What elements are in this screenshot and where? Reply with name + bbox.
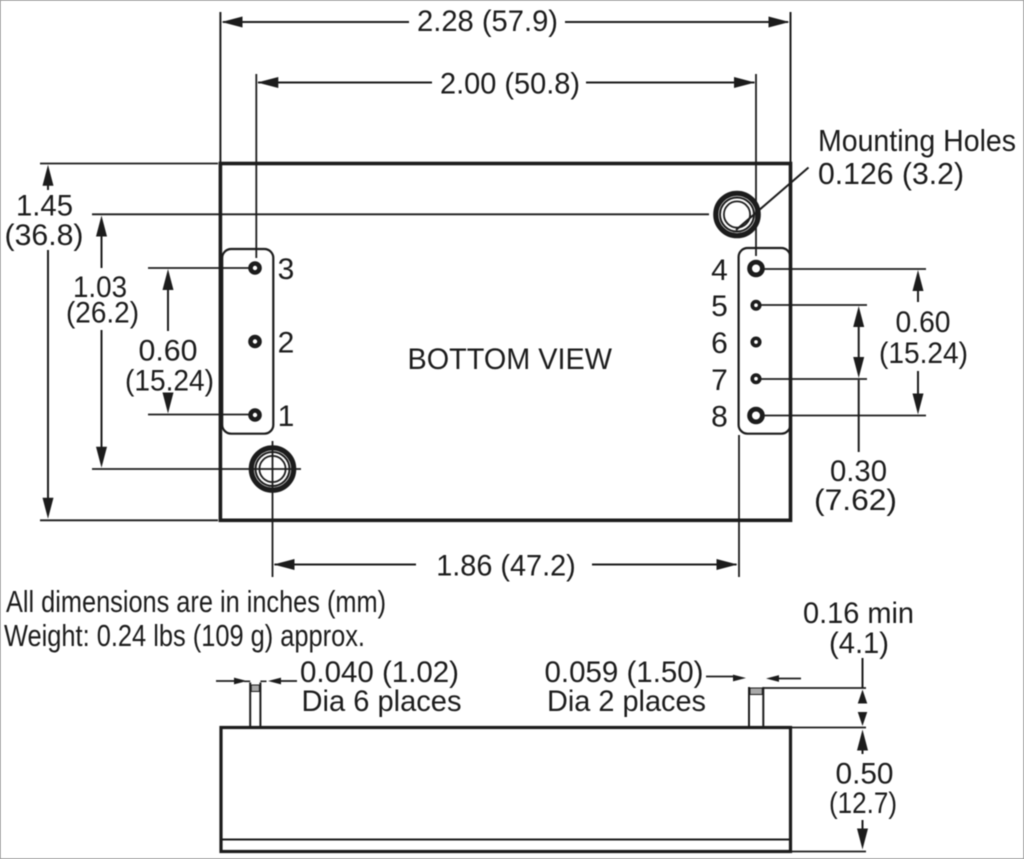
package body outline (bottom view): [220, 164, 790, 521]
0.040 dia text: [300, 656, 462, 718]
svg-text:8: 8: [711, 401, 728, 434]
svg-text:(12.7): (12.7): [829, 787, 897, 820]
svg-text:0.16 min: 0.16 min: [803, 597, 914, 630]
side view left pin (0.040 dia): [244, 681, 267, 727]
pin 1: [251, 411, 260, 420]
svg-text:All dimensions are in inches (: All dimensions are in inches (mm): [6, 584, 386, 619]
side view body outline: [221, 728, 791, 852]
mounting hole bottom-left: [251, 448, 293, 490]
dimension 1.86 (47.2) hole to pin strip: [274, 435, 740, 583]
svg-text:7: 7: [711, 364, 728, 397]
svg-text:0.50: 0.50: [836, 758, 894, 791]
svg-text:2: 2: [278, 327, 295, 360]
pin label 2: [278, 327, 295, 360]
BOTTOM VIEW label: [408, 343, 613, 376]
svg-text:0.126 (3.2): 0.126 (3.2): [818, 156, 964, 191]
dimension 1.03 (26.2) mounting hole span: [66, 214, 709, 469]
svg-text:5: 5: [711, 290, 728, 323]
pin label 7: [711, 364, 728, 397]
svg-text:3: 3: [278, 253, 295, 286]
svg-text:(26.2): (26.2): [66, 297, 139, 330]
svg-text:4: 4: [711, 254, 728, 287]
dimension 0.50 (12.7) body height: [829, 730, 897, 850]
svg-text:1: 1: [278, 400, 295, 433]
mounting holes callout text: [818, 123, 1016, 191]
side view top edge extension: [791, 727, 867, 729]
centerline through bottom-left mounting hole (1.86 extension): [272, 441, 274, 577]
0.040 dia arrows: [216, 678, 297, 685]
svg-text:6: 6: [711, 327, 728, 360]
svg-text:Weight: 0.24 lbs (109 g) appro: Weight: 0.24 lbs (109 g) approx.: [4, 618, 365, 653]
svg-text:Dia 2 places: Dia 2 places: [547, 685, 706, 718]
svg-text:2.00 (50.8): 2.00 (50.8): [440, 68, 580, 101]
dimension 0.30 (7.62) pin pitch: [761, 305, 897, 517]
svg-text:Dia 6 places: Dia 6 places: [302, 685, 462, 718]
pin label 4: [711, 254, 728, 287]
dimension 2.00 (50.8) pin span width: [256, 68, 756, 259]
note: weight: [4, 618, 365, 653]
dimension 2.28 (57.9) overall width: [220, 5, 790, 164]
dimension 1.45 (36.8) body height: [5, 164, 219, 521]
0.059 dia text: [545, 656, 707, 718]
pin label 3: [278, 253, 295, 286]
svg-text:(36.8): (36.8): [5, 219, 84, 252]
dimension 0.60 (15.24) right pin span: [764, 269, 968, 416]
pin 5: [752, 302, 759, 309]
mounting holes callout leader: [736, 168, 809, 231]
pin 4: [750, 262, 763, 275]
svg-text:(4.1): (4.1): [829, 627, 889, 660]
svg-text:0.60: 0.60: [139, 335, 198, 368]
pin 3: [251, 264, 260, 273]
pin top extension line: [763, 687, 866, 689]
pin label 6: [711, 327, 728, 360]
pin 2: [251, 337, 260, 346]
svg-text:(15.24): (15.24): [125, 365, 214, 398]
pin label 1: [278, 400, 295, 433]
svg-text:1.45: 1.45: [16, 190, 73, 223]
svg-text:(7.62): (7.62): [814, 484, 897, 517]
pin label 8: [711, 401, 728, 434]
svg-text:1.86 (47.2): 1.86 (47.2): [436, 550, 576, 583]
svg-text:(15.24): (15.24): [879, 337, 968, 370]
pin 6: [752, 338, 759, 345]
svg-text:BOTTOM VIEW: BOTTOM VIEW: [408, 343, 613, 376]
pin 8: [750, 409, 763, 422]
0.059 dia leader and arrows: [706, 675, 801, 682]
mounting hole top-right: [716, 193, 758, 235]
side view right pin (0.059 dia): [749, 687, 763, 728]
svg-text:2.28 (57.9): 2.28 (57.9): [417, 5, 558, 38]
side view bottom edge extension: [791, 851, 867, 853]
dimension 0.60 (15.24) left pin span: [125, 268, 249, 415]
pin 7: [752, 375, 759, 382]
right pin strip outline: [739, 248, 791, 434]
pin label 5: [711, 290, 728, 323]
left pin strip outline: [222, 249, 273, 434]
dimension 0.16 min (4.1) pin length: [803, 597, 914, 726]
svg-text:Mounting Holes: Mounting Holes: [818, 123, 1016, 158]
note: all dimensions: [6, 584, 386, 619]
svg-text:0.60: 0.60: [896, 306, 951, 339]
